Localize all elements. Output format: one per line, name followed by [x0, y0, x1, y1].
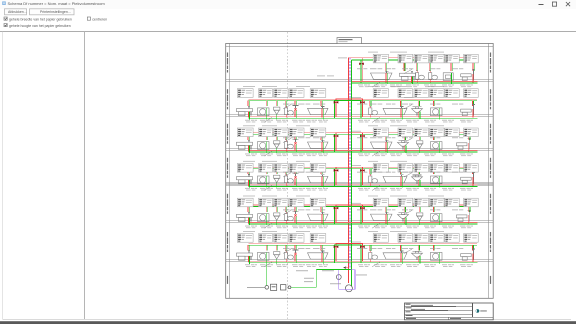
branch pipe green to left valve, storey 6 — [335, 245, 352, 263]
page break dashed line — [286, 32, 288, 319]
riser top drop green to storey 1 — [360, 60, 362, 83]
floor slab line 5 upper — [226, 220, 494, 222]
fixture drop at x=266.7 storey 2 — [265, 101, 267, 107]
fixture data label R2.6 — [464, 89, 479, 98]
branch pipe red to right valve, storey 6 — [349, 244, 363, 262]
fixture drop at x=419.7 storey 3 — [418, 134, 420, 140]
toilet R2a — [369, 106, 378, 118]
shut-off valve left drop storey 6 — [334, 246, 339, 249]
fixture drop at x=321.5 storey 2 — [320, 101, 322, 107]
kitchen sink L2 — [258, 108, 270, 119]
branch pipe green to right valve, storey 2 — [351, 101, 361, 119]
fixture data label L6.4 — [289, 234, 304, 243]
floor slab line 2 lower — [226, 116, 494, 118]
fixture drop at x=469.3 storey 5 — [468, 206, 470, 212]
storey label left: 1. Begane grond — [227, 232, 228, 252]
fixture drop at x=370.3 storey 6 — [369, 245, 371, 251]
fixture data label R2.2 — [398, 89, 413, 98]
drawing title box — [337, 38, 362, 44]
fixture data label R6.3 — [414, 234, 429, 243]
fixture data label R5.1 — [373, 198, 388, 207]
fixture data label R1.5 — [445, 54, 460, 63]
fixture data label R3.3 — [414, 128, 429, 137]
kitchen sink R3 — [431, 142, 443, 153]
fixture data label R2.5 — [445, 89, 460, 98]
fixture drop at x=266.7 storey 4 — [265, 169, 267, 175]
branch pipe green to left valve, storey 4 — [335, 169, 352, 187]
branch texts above fixtures — [283, 171, 325, 174]
riser top drop red to storey 1 — [361, 58, 363, 82]
branch texts above fixtures — [283, 103, 325, 106]
pipe dimension texts — [245, 120, 328, 123]
washbasin L5 — [237, 212, 253, 225]
leader line — [372, 151, 380, 156]
fixture drop at x=248.5 storey 3 — [247, 134, 249, 140]
schematic outer frame — [226, 44, 494, 299]
shower valve L6 — [293, 250, 299, 263]
title block bottom row divider — [448, 317, 450, 319]
shower valve L4 — [293, 174, 299, 187]
left label column divider — [229, 44, 231, 299]
fixture drop at x=404.8 storey 5 — [403, 206, 405, 212]
svg-text:Afdrukken...: Afdrukken... — [8, 10, 27, 14]
pedestal washbasin R3 — [398, 141, 409, 153]
hot water pipe (green) storey 3 — [249, 151, 478, 153]
fixture data label L3.3 — [274, 128, 288, 137]
leader line — [404, 249, 412, 253]
fixture data label L5.5 — [310, 198, 326, 207]
pipe dimension texts — [358, 120, 473, 123]
fixture data label R3.1 — [373, 128, 388, 137]
storey label left: 1. Bovenste verdieping — [227, 194, 228, 214]
storey label right: 3. Bovenste verdieping — [490, 124, 491, 144]
storey label right: Kelder — [490, 276, 491, 284]
fixture data label L6.1 — [237, 234, 253, 243]
fixture data label L2.2 — [259, 89, 273, 98]
branch pipe green to right valve, storey 4 — [351, 169, 361, 187]
branch texts above fixtures — [283, 208, 325, 211]
urinal R5 — [417, 213, 423, 225]
title block logo cell divider — [472, 303, 474, 317]
fixture data label R4.2 — [398, 164, 413, 173]
washbasin L6 — [237, 251, 253, 264]
branch texts above fixtures — [357, 136, 463, 139]
fixture drop at x=418.8 storey 4 — [417, 169, 419, 175]
toilet L6 — [285, 251, 294, 263]
company logo — [476, 309, 480, 313]
branch pipe red to right valve, storey 4 — [349, 167, 363, 185]
kitchen sink L5 — [258, 214, 270, 225]
pipe dimension texts — [245, 264, 328, 267]
fixture data label R1.6 — [464, 54, 479, 63]
leader line — [264, 262, 272, 267]
fixture data label R6.6 — [464, 234, 479, 243]
fixture drop at x=434.0 storey 5 — [433, 206, 435, 212]
branch texts above fixtures — [357, 208, 463, 211]
fixture drop at x=276.7 storey 6 — [275, 245, 277, 251]
band1 fixture drop at x=404.4 — [403, 58, 405, 71]
fixture data label L2.1 — [237, 89, 253, 98]
leader line — [283, 210, 291, 214]
basement feed riser green from floor 6 — [266, 263, 268, 286]
fixture drop at x=401.0 storey 2 — [400, 101, 402, 107]
leader line — [372, 262, 380, 267]
band1 fixture drop at x=473.5 — [472, 58, 474, 71]
shut-off valve left drop storey 3 — [334, 135, 339, 138]
fixture drop at x=286.1 storey 5 — [285, 206, 287, 212]
fixture drop at x=286.1 storey 2 — [285, 101, 287, 107]
texts above label boxes — [243, 230, 255, 233]
left panel / page divider — [84, 32, 86, 320]
fixture data label L4.5 — [310, 164, 326, 173]
fixture data label L4.4 — [289, 164, 304, 173]
toolbar/preview separator — [0, 31, 576, 33]
right label column divider — [488, 44, 490, 299]
checkbox gehele hoogte (checked) — [4, 24, 7, 27]
inner frame top line — [226, 45, 494, 47]
basin with standpipe R3 — [457, 138, 471, 151]
cold water pipe (red) storey 2 — [249, 116, 478, 118]
fixture drop at x=434.0 storey 2 — [433, 101, 435, 107]
fixture data label R4.6 — [464, 164, 479, 173]
fixture data label L2.5 — [310, 89, 326, 98]
branch texts above fixtures — [283, 136, 325, 139]
ceiling distribution red, storey 4 — [249, 166, 478, 168]
fixture data label L5.2 — [259, 198, 273, 207]
shut-off valve right drop storey 4 — [360, 169, 365, 172]
branch texts above fixtures — [357, 171, 463, 174]
washbasin R1 — [400, 71, 416, 84]
cold water pipe (red) storey 1 — [352, 80, 478, 82]
title bar background — [0, 0, 576, 9]
band1 fixture drop at x=430.2 — [429, 58, 431, 71]
ceiling distribution green, storey 3 — [249, 133, 478, 135]
fixture data label R2.1 — [373, 89, 388, 98]
leader line — [264, 186, 272, 191]
pedestal washbasin R6 — [412, 251, 423, 263]
texts above label boxes — [368, 124, 378, 127]
fixture data label R2.4 — [430, 89, 445, 98]
leader line — [404, 105, 412, 109]
fixture drop at x=370.3 storey 2 — [369, 101, 371, 107]
storey label left: 3. Bovenste verdieping — [227, 124, 228, 144]
fixture drop at x=321.5 storey 6 — [320, 245, 322, 251]
ceiling distribution green, storey 6 — [249, 244, 478, 246]
fixture data label L4.3 — [274, 164, 288, 173]
band1 fixture drop at x=385.6 — [384, 58, 386, 71]
band1 fixture drop at x=451.5 — [450, 58, 452, 71]
fixture drop at x=286.1 storey 4 — [285, 169, 287, 175]
fixture data label R3.6 — [464, 128, 479, 137]
floor slab line 3 lower — [226, 150, 494, 152]
washbasin L3 — [237, 140, 253, 153]
fixture drop at x=266.7 storey 6 — [265, 245, 267, 251]
branch pipe red to right valve, storey 2 — [349, 99, 363, 117]
toilet L5 — [285, 212, 294, 224]
leader line — [404, 210, 412, 214]
fixture data label R6.1 — [373, 234, 388, 243]
fixture data label L4.2 — [259, 164, 273, 173]
fixture drop at x=434.0 storey 4 — [433, 169, 435, 175]
basement supply pipe green — [291, 286, 316, 288]
fixture drop at x=321.5 storey 4 — [320, 169, 322, 175]
svg-text:centreren: centreren — [92, 17, 107, 21]
button Afdrukken — [5, 9, 27, 15]
hot water pipe (green) storey 5 — [249, 223, 478, 225]
fixture data label R5.5 — [445, 198, 460, 207]
basement green run to boiler — [346, 270, 351, 288]
storey label right: 1. Begane grond — [490, 232, 491, 252]
band1 ceiling distribution green — [351, 59, 477, 61]
checkbox centreren (unchecked) — [87, 17, 90, 20]
toilet L3 — [285, 140, 294, 152]
bathtub L3 — [308, 140, 329, 153]
fixture data label R6.4 — [430, 234, 445, 243]
restore button glyph — [552, 2, 556, 6]
fixture drop at x=276.7 storey 3 — [275, 134, 277, 140]
svg-text:gehele breedte van het papier: gehele breedte van het papier gebruiken — [9, 17, 72, 21]
branch texts above fixtures — [357, 103, 463, 106]
bathtub L5 — [308, 212, 329, 225]
toilet R1b — [429, 71, 438, 83]
branch pipe green to left valve, storey 3 — [335, 134, 352, 152]
pipe dimension texts — [245, 226, 328, 229]
band1 ceiling distribution red — [349, 57, 477, 59]
storey label right: 2. Bovenste verdieping — [490, 158, 491, 178]
checkbox gehele breedte (checked) — [4, 17, 7, 20]
branch texts above fixtures — [357, 67, 463, 70]
fixture data label L3.4 — [289, 128, 304, 137]
band1 fixture drop at x=417.1 — [416, 58, 418, 71]
toilet L2 — [285, 106, 294, 118]
shut-off valve right drop storey 6 — [360, 246, 365, 249]
fixture data label R4.3 — [414, 164, 429, 173]
fixture drop at x=276.7 storey 4 — [275, 169, 277, 175]
fixture drop at x=472.9 storey 6 — [471, 245, 473, 251]
kitchen sink R2 — [431, 108, 443, 119]
fixture drop at x=434.0 storey 6 — [433, 245, 435, 251]
fixture data label L6.2 — [259, 234, 273, 243]
shut-off valve right drop storey 5 — [360, 207, 365, 210]
ceiling distribution green, storey 2 — [249, 100, 478, 102]
close button glyph — [566, 2, 570, 6]
leader line — [264, 151, 272, 156]
pipe dimension texts — [358, 154, 473, 157]
urinal L6 — [274, 252, 280, 264]
kitchen sink L6 — [258, 252, 270, 263]
ceiling distribution red, storey 6 — [249, 243, 478, 245]
hot water pipe (green) storey 2 — [249, 117, 478, 119]
floor slab line 5 lower — [226, 222, 494, 224]
leader line — [372, 117, 380, 122]
fixture data label R3.5 — [445, 128, 460, 137]
storey label left: 5. Bovenste verdieping — [227, 53, 228, 73]
texts above label boxes — [243, 160, 255, 163]
fixture data label R5.2 — [398, 198, 413, 207]
fixture drop at x=321.5 storey 5 — [320, 206, 322, 212]
fixture data label R4.1 — [373, 164, 388, 173]
bathtub R1 — [371, 71, 393, 84]
branch pipe red to left valve, storey 4 — [336, 167, 349, 185]
cold water pipe (red) storey 4 — [249, 184, 478, 186]
ceiling distribution red, storey 3 — [249, 132, 478, 134]
floor slab line 1 lower — [226, 81, 494, 83]
fixture drop at x=295.5 storey 6 — [294, 245, 296, 251]
fixture drop at x=295.5 storey 4 — [294, 169, 296, 175]
shut-off valve right drop storey 3 — [360, 135, 365, 138]
basement service pipe (gray) — [247, 286, 265, 288]
texts above label boxes — [243, 85, 255, 88]
pedestal washbasin R5 — [398, 213, 409, 225]
leader line — [372, 223, 380, 228]
riser: cold water (red) — [348, 58, 350, 283]
fixture drop at x=469.3 storey 3 — [468, 134, 470, 140]
urinal L5 — [274, 213, 280, 225]
floor slab line 4 upper — [226, 182, 494, 184]
riser: hot water (green) — [350, 60, 352, 287]
fixture data label R2.3 — [414, 89, 429, 98]
branch pipe red to left valve, storey 2 — [336, 99, 349, 117]
fixture data label R5.4 — [430, 198, 445, 207]
fixture data label L3.1 — [237, 128, 253, 137]
svg-text:gehele hoogte van het papier g: gehele hoogte van het papier gebruiken — [9, 24, 71, 28]
branch pipe green to right valve, storey 3 — [351, 134, 361, 152]
fixture data label R4.4 — [430, 164, 445, 173]
toilet R4a — [369, 174, 378, 186]
fixture data label L5.3 — [274, 198, 288, 207]
boiler circle — [345, 285, 352, 292]
kitchen sink R5 — [431, 214, 443, 225]
leader line — [404, 138, 412, 142]
toilet R1a — [416, 71, 425, 83]
fixture drop at x=404.8 storey 3 — [403, 134, 405, 140]
branch texts above fixtures — [357, 247, 463, 250]
fixture drop at x=401.0 storey 6 — [400, 245, 402, 251]
window bottom edge — [0, 321, 576, 324]
basin with standpipe R4 — [461, 173, 475, 186]
floor slab line 4 lower — [226, 184, 494, 186]
bathtub R4 — [383, 175, 407, 188]
minimize button glyph — [538, 3, 543, 5]
ceiling distribution red, storey 5 — [249, 204, 478, 206]
storey label right: 4. Bovenste verdieping — [490, 89, 491, 109]
fixture drop at x=401.0 storey 4 — [400, 169, 402, 175]
pedestal washbasin R4 — [412, 175, 423, 187]
fixture data label R1.3 — [414, 54, 429, 63]
leader line — [283, 249, 291, 253]
bathtub R6 — [383, 251, 407, 264]
fixture data label R1.4 — [430, 54, 445, 63]
kitchen sink R4 — [431, 176, 443, 187]
fixture data label R5.3 — [414, 198, 429, 207]
pipe dimension texts — [245, 188, 328, 191]
shower valve L5 — [293, 211, 299, 224]
fixture drop at x=248.5 storey 5 — [247, 206, 249, 212]
bathtub R5 — [371, 212, 393, 225]
leader line — [283, 105, 291, 109]
fixture drop at x=286.1 storey 3 — [285, 134, 287, 140]
fixture data label R6.5 — [445, 234, 460, 243]
fixture data label R6.2 — [398, 234, 413, 243]
leader line — [264, 223, 272, 228]
pipe dimension texts — [358, 264, 473, 267]
leader line — [404, 69, 412, 73]
bathtub L4 — [308, 175, 329, 188]
fixture data label L6.3 — [274, 234, 288, 243]
fixture drop at x=321.5 storey 3 — [320, 134, 322, 140]
basement texts — [296, 269, 308, 272]
kitchen sink L4 — [258, 176, 270, 187]
window icon — [2, 1, 6, 5]
urinal L3 — [274, 141, 280, 153]
toilet L4 — [285, 174, 294, 186]
fixture drop at x=472.9 storey 4 — [471, 169, 473, 175]
floor slab line 3 upper — [226, 148, 494, 150]
water meter assembly — [265, 286, 269, 290]
fixture drop at x=248.5 storey 6 — [247, 245, 249, 251]
leader line — [283, 138, 291, 142]
fixture drop at x=418.8 storey 6 — [417, 245, 419, 251]
fixture drop at x=295.5 storey 3 — [294, 134, 296, 140]
fixture drop at x=248.5 storey 2 — [247, 101, 249, 107]
band1 riser texts — [317, 75, 325, 78]
branch pipe green to left valve, storey 5 — [335, 206, 352, 224]
ceiling distribution red, storey 2 — [249, 98, 478, 100]
shut-off valve top riser — [359, 63, 364, 66]
basin with standpipe R5 — [457, 210, 471, 223]
shut-off valve left drop storey 2 — [334, 101, 339, 104]
shower valve L3 — [293, 139, 299, 152]
branch pipe red to left valve, storey 6 — [336, 244, 349, 262]
urinal R3 — [417, 141, 423, 153]
pipe dimension texts — [245, 154, 328, 157]
fixture data label L2.4 — [289, 89, 304, 98]
fixture data label L3.2 — [259, 128, 273, 137]
floor slab line 6 lower — [226, 260, 494, 262]
cold water pipe (red) storey 5 — [249, 222, 478, 224]
texts above label boxes — [368, 85, 378, 88]
storey label right: 5. Bovenste verdieping — [490, 53, 491, 73]
svg-text:Printerinstellingen...: Printerinstellingen... — [40, 10, 71, 14]
fixture drop at x=419.7 storey 5 — [418, 206, 420, 212]
basin with standpipe R6 — [461, 249, 475, 262]
basement feed green from floor 6 — [316, 269, 351, 271]
fixture data label L4.1 — [237, 164, 253, 173]
storey label left: Kelder — [227, 276, 228, 284]
hot water pipe (green) storey 6 — [249, 262, 478, 264]
title block row lines — [405, 306, 473, 308]
branch pipe red to right valve, storey 3 — [349, 133, 363, 151]
fixture drop at x=266.7 storey 5 — [265, 206, 267, 212]
kitchen sink L3 — [258, 142, 270, 153]
fixture drop at x=248.5 storey 4 — [247, 169, 249, 175]
fixture drop at x=295.5 storey 5 — [294, 206, 296, 212]
texts above label boxes — [368, 51, 378, 54]
shut-off valve left drop storey 4 — [334, 169, 339, 172]
leader line — [372, 82, 380, 87]
fixture drop at x=276.7 storey 2 — [275, 101, 277, 107]
title block frame — [405, 303, 494, 320]
bathtub L6 — [308, 251, 329, 264]
hot water pipe (green) storey 4 — [249, 185, 478, 187]
panels bottom border — [2, 318, 571, 320]
pedestal washbasin R2 — [412, 107, 423, 119]
basement violet circulation loop — [339, 270, 355, 290]
shower valve L2 — [293, 106, 299, 119]
basin with standpipe R2 — [461, 105, 475, 118]
bathtub R3 — [371, 140, 393, 153]
fixture drop at x=266.7 storey 3 — [265, 134, 267, 140]
